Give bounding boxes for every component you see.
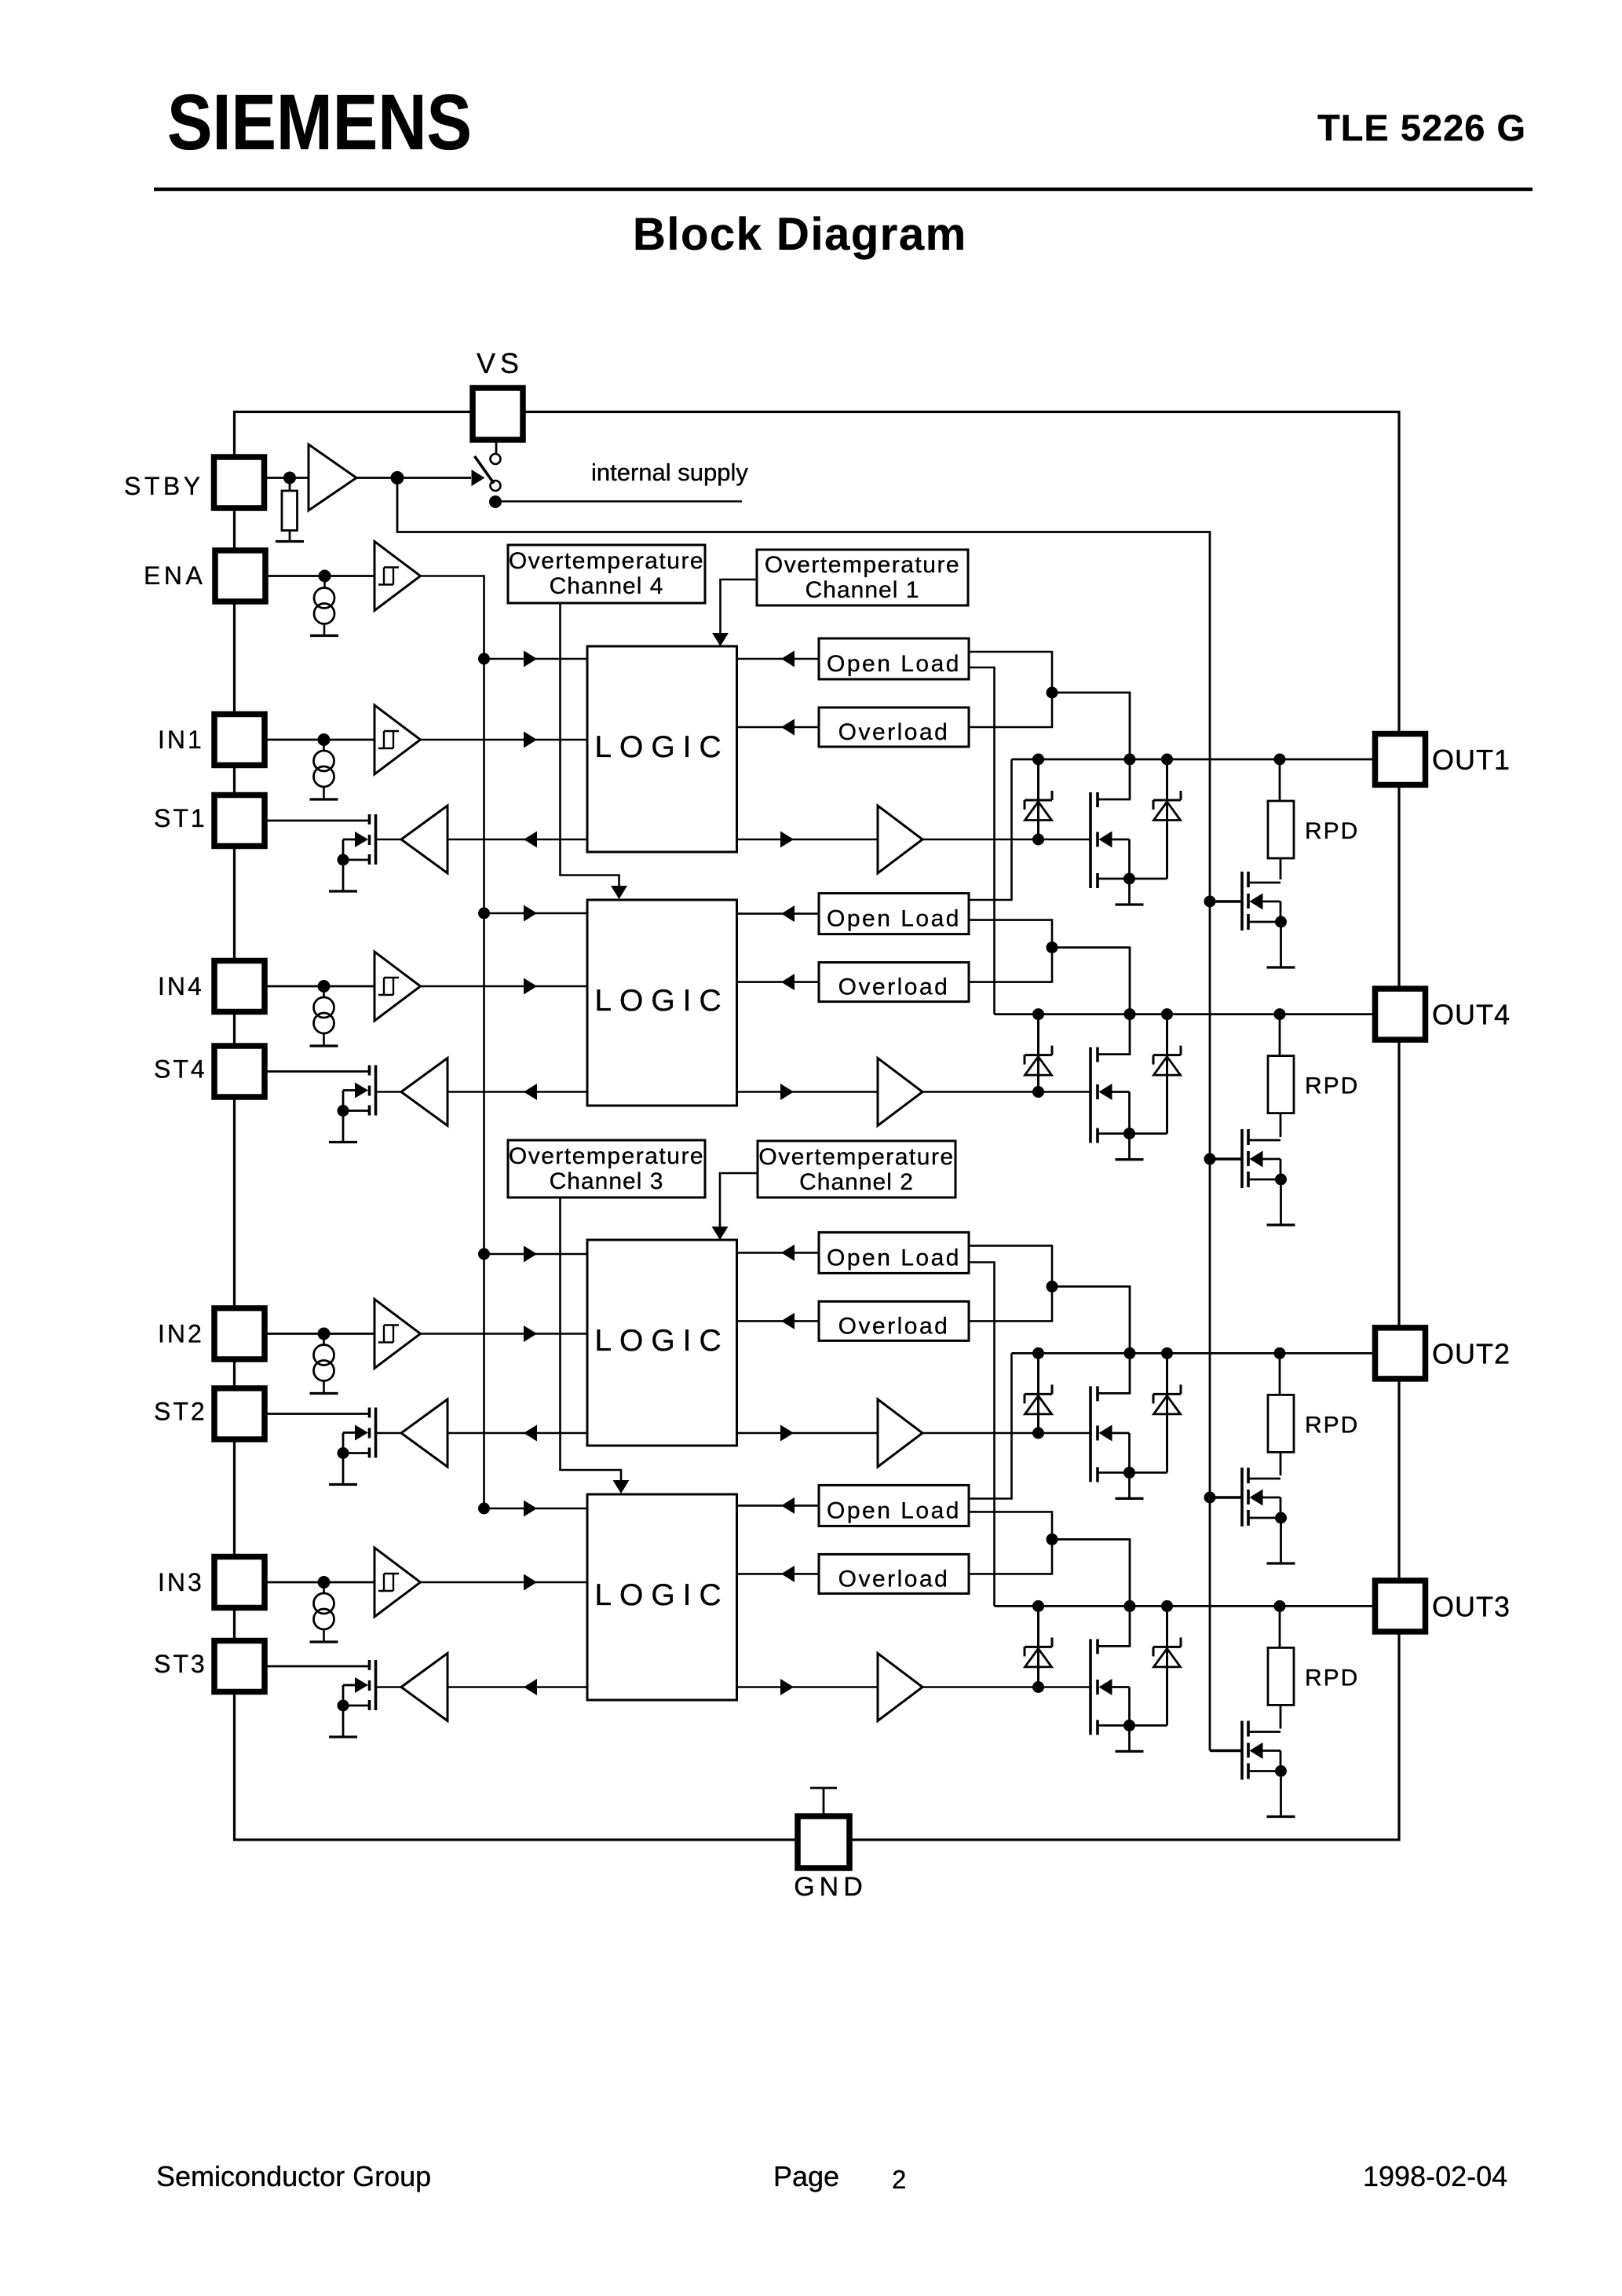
footer Page xyxy=(773,2160,839,2192)
pin IN2 xyxy=(214,1308,265,1359)
overtemperature channel 1 box xyxy=(757,550,968,605)
wire power transistor 4 to ground xyxy=(1128,1134,1131,1160)
wire drain sense to output transistor 2 xyxy=(1052,1286,1130,1393)
pin ST4 xyxy=(214,1046,265,1097)
pulldown transistor channel 4 xyxy=(1242,1129,1287,1188)
schmitt trigger IN4 xyxy=(374,952,421,1021)
logic block channel 1 xyxy=(587,646,737,852)
node OUT1 net xyxy=(1012,754,1376,766)
wire RPD to pulldown transistor 4 xyxy=(1280,1113,1282,1137)
wire overtemp ch2 to logic2 xyxy=(712,1173,758,1240)
wire IN4 to current source xyxy=(323,986,325,997)
ground power transistor 4 xyxy=(1116,1158,1144,1161)
ground power transistor 3 xyxy=(1116,1750,1144,1753)
label RPD channel 3 xyxy=(1305,1665,1359,1691)
zener diode gate clamp channel 3 xyxy=(1025,1606,1052,1693)
svg-text:Open Load: Open Load xyxy=(827,906,961,932)
label RPD channel 4 xyxy=(1305,1073,1359,1099)
svg-text:IN1: IN1 xyxy=(158,726,204,754)
wire OUT4 to RPD xyxy=(1279,1015,1281,1056)
pulldown transistor channel 1 xyxy=(1242,872,1287,930)
wire overtemp ch1 to logic1 xyxy=(712,579,757,646)
current source IN2 xyxy=(314,1345,334,1381)
wire supply rail to pulldown gate 4 xyxy=(1210,1157,1242,1161)
wire status driver to ST1 transistor gate xyxy=(376,839,402,841)
wire OUT3 to RPD xyxy=(1279,1606,1281,1647)
wire IN1 to current source xyxy=(323,740,325,751)
pin IN1 xyxy=(214,715,265,766)
switch terminal lower xyxy=(491,481,501,491)
node pulldown gate channel 2 xyxy=(1204,1492,1216,1504)
wire logic 4 to output driver xyxy=(737,1084,879,1100)
svg-text:Overload: Overload xyxy=(838,1313,950,1339)
node internal supply xyxy=(489,495,502,508)
label internal supply xyxy=(591,459,748,486)
wire STBY pin to buffer xyxy=(265,477,309,479)
resistor STBY pulldown xyxy=(282,491,298,531)
wire logic 2 to output driver xyxy=(737,1425,879,1442)
wire overtemp ch3 to logic3 xyxy=(561,1197,630,1493)
label GND xyxy=(794,1872,868,1902)
wire open load 1 drain sense stub xyxy=(969,652,1052,727)
wire logic 3 to output driver xyxy=(737,1679,879,1695)
wire open load 4 drain sense stub xyxy=(969,920,1052,982)
chip boundary rectangle xyxy=(235,412,1400,1841)
wire enable into logic 3 xyxy=(484,1501,588,1517)
wire open load 3 into logic xyxy=(737,1497,820,1514)
wire to pulldown resistor xyxy=(289,478,291,492)
node OUT4 net xyxy=(995,1008,1376,1020)
wire output driver to power gate 3 xyxy=(922,1686,1090,1688)
current source IN1 xyxy=(314,751,334,787)
wire logic 2 to status driver xyxy=(448,1425,587,1442)
svg-text:Semiconductor Group: Semiconductor Group xyxy=(156,2160,431,2192)
label IN3 xyxy=(158,1568,204,1596)
ground pulldown transistor 2 xyxy=(1267,1562,1295,1564)
wire open load 2 to OUT3 sense xyxy=(969,1263,995,1607)
label OUT1 xyxy=(1432,744,1511,776)
wire pulldown transistor 3 to ground xyxy=(1280,1771,1282,1817)
ground pulldown transistor 4 xyxy=(1267,1223,1295,1226)
svg-text:ST2: ST2 xyxy=(154,1398,207,1426)
wire IN1 pin to schmitt xyxy=(265,739,374,741)
transistor ST3 open drain xyxy=(338,1660,376,1712)
pin ST3 xyxy=(214,1641,265,1692)
zener diode gate clamp channel 4 xyxy=(1025,1015,1052,1098)
wire current source 1 to ground xyxy=(323,787,325,799)
svg-text:SIEMENS: SIEMENS xyxy=(167,78,472,166)
wire ST2 pin to transistor xyxy=(265,1413,370,1415)
label ST4 xyxy=(154,1055,207,1084)
current source IN3 xyxy=(314,1593,334,1629)
svg-text:Overtemperature: Overtemperature xyxy=(509,1143,704,1169)
open load box channel 3 xyxy=(819,1485,969,1526)
body diode channel 2 xyxy=(1153,1353,1181,1472)
svg-text:Overload: Overload xyxy=(838,1566,950,1592)
label OUT3 xyxy=(1432,1590,1511,1622)
node pulldown gate channel 4 xyxy=(1204,1153,1216,1165)
svg-text:internal supply: internal supply xyxy=(591,459,748,486)
zener diode gate clamp channel 2 xyxy=(1025,1353,1052,1439)
overload box channel 3 xyxy=(819,1554,969,1593)
overtemperature channel 4 box xyxy=(508,545,705,603)
svg-text:ST4: ST4 xyxy=(154,1055,207,1084)
pin OUT2 xyxy=(1375,1328,1426,1379)
pin VS xyxy=(473,388,523,440)
resistor RPD channel 1 xyxy=(1268,801,1294,858)
wire overload 2 into logic xyxy=(737,1313,820,1329)
transistor ST1 open drain xyxy=(338,814,376,866)
transistor ST4 open drain xyxy=(338,1066,376,1117)
svg-text:RPD: RPD xyxy=(1305,1073,1359,1099)
wire pulldown transistor 1 to ground xyxy=(1280,922,1282,967)
node drain sense channel 3 xyxy=(1047,1534,1058,1545)
wire overload 4 into logic xyxy=(737,974,820,990)
ground STBY resistor xyxy=(276,540,304,543)
wire drain sense to output transistor 3 xyxy=(1052,1539,1130,1646)
zener diode gate clamp channel 1 xyxy=(1025,759,1052,846)
pin IN4 xyxy=(214,961,265,1012)
ground pulldown transistor 3 xyxy=(1267,1815,1295,1818)
svg-text:Overtemperature: Overtemperature xyxy=(509,548,704,574)
node IN2 junction xyxy=(318,1328,331,1340)
wire ST1 pin to transistor xyxy=(265,820,370,822)
wire current source 3 to ground xyxy=(323,1629,325,1642)
SIEMENS logo xyxy=(167,78,472,166)
open load box channel 4 xyxy=(819,894,969,934)
wire IN3 to current source xyxy=(323,1582,325,1593)
wire power transistor 1 to ground xyxy=(1128,879,1131,905)
wire open load 2 into logic xyxy=(737,1245,820,1261)
pin OUT3 xyxy=(1375,1581,1426,1632)
resistor RPD channel 2 xyxy=(1268,1395,1294,1452)
svg-text:GND: GND xyxy=(794,1872,868,1902)
wire enable into logic 2 xyxy=(484,1246,588,1263)
wire logic 1 to output driver xyxy=(737,832,879,848)
node OUT3 net xyxy=(995,1600,1376,1612)
pulldown transistor channel 3 xyxy=(1242,1721,1287,1780)
label STBY xyxy=(124,472,204,500)
svg-text:ENA: ENA xyxy=(144,561,206,590)
wire RPD to pulldown transistor 2 xyxy=(1280,1452,1282,1475)
pin ENA xyxy=(215,550,265,601)
svg-text:2: 2 xyxy=(892,2165,906,2194)
wire status driver to ST3 transistor gate xyxy=(376,1686,402,1688)
wire RPD to pulldown transistor 1 xyxy=(1280,858,1282,879)
svg-text:Open Load: Open Load xyxy=(827,651,961,677)
ground symbol above GND pin xyxy=(810,1788,837,1816)
power transistor channel 1 xyxy=(1090,792,1167,888)
wire drain sense to output transistor 1 xyxy=(1052,693,1130,799)
wire internal supply xyxy=(495,500,742,502)
output driver channel 4 xyxy=(878,1058,922,1126)
svg-text:TLE 5226 G: TLE 5226 G xyxy=(1317,107,1526,148)
label ENA xyxy=(144,561,206,590)
wire status driver to ST4 transistor gate xyxy=(376,1091,402,1093)
svg-text:IN4: IN4 xyxy=(158,972,204,1000)
wire ST3 pin to transistor xyxy=(265,1665,370,1668)
wire enable into logic 4 xyxy=(484,905,588,922)
svg-text:Overload: Overload xyxy=(838,974,950,1000)
wire power transistor 3 to ground xyxy=(1128,1725,1131,1751)
pin ST2 xyxy=(214,1388,265,1439)
body diode channel 4 xyxy=(1153,1015,1181,1134)
label ST3 xyxy=(154,1650,207,1678)
schmitt trigger IN1 xyxy=(374,705,421,774)
logic block channel 4 xyxy=(587,900,737,1106)
svg-text:IN3: IN3 xyxy=(158,1568,204,1596)
svg-text:RPD: RPD xyxy=(1305,1412,1359,1438)
svg-text:OUT1: OUT1 xyxy=(1432,744,1511,776)
svg-text:STBY: STBY xyxy=(124,472,204,500)
wire IN2 pin to schmitt xyxy=(265,1333,374,1335)
wire ST2 transistor to ground xyxy=(342,1453,345,1485)
node enable channel 4 xyxy=(478,908,490,919)
wire overload 3 into logic xyxy=(737,1566,820,1582)
node drain sense channel 4 xyxy=(1047,941,1058,953)
schmitt buffer ENA xyxy=(374,542,421,611)
wire drain sense to output transistor 4 xyxy=(1052,948,1130,1055)
label VS xyxy=(477,347,524,379)
wire pulldown transistor 4 to ground xyxy=(1280,1179,1282,1225)
buffer STBY xyxy=(309,444,356,510)
status driver channel 4 xyxy=(401,1058,448,1126)
output driver channel 3 xyxy=(878,1654,922,1721)
svg-text:Open Load: Open Load xyxy=(827,1245,961,1270)
wire buffer to switch xyxy=(356,470,485,486)
wire current source 2 to ground xyxy=(323,1381,325,1394)
status driver channel 1 xyxy=(401,806,448,873)
wire OUT1 to open load 4 sense xyxy=(969,759,1012,900)
svg-text:LOGIC: LOGIC xyxy=(594,1578,729,1612)
node enable channel 3 xyxy=(478,1503,490,1515)
label IN2 xyxy=(158,1320,204,1348)
wire output driver to power gate 4 xyxy=(922,1091,1090,1093)
schmitt trigger IN2 xyxy=(374,1300,421,1369)
wire OUT2 to RPD xyxy=(1279,1353,1281,1395)
ground ST4 transistor xyxy=(329,1141,357,1143)
svg-text:Overtemperature: Overtemperature xyxy=(765,552,960,578)
label IN1 xyxy=(158,726,204,754)
wire enable into logic 1 xyxy=(484,651,588,667)
node pulldown gate channel 1 xyxy=(1204,896,1216,908)
wire current source to ground xyxy=(323,624,326,636)
wire open load 3 drain sense stub xyxy=(969,1512,1052,1574)
svg-text:ST1: ST1 xyxy=(154,804,207,832)
footer date xyxy=(1363,2160,1507,2192)
logic block channel 2 xyxy=(587,1240,737,1446)
node STBY junction xyxy=(283,472,296,484)
overtemperature channel 2 box xyxy=(758,1141,955,1197)
current source IN4 xyxy=(314,997,334,1033)
wire logic 3 to status driver xyxy=(448,1679,587,1695)
footer Semiconductor Group xyxy=(156,2160,431,2192)
svg-text:LOGIC: LOGIC xyxy=(594,984,729,1018)
ground ENA current source xyxy=(310,634,338,637)
wire IN3 schmitt into logic xyxy=(421,1574,588,1591)
overload box channel 1 xyxy=(819,707,969,747)
wire ST3 transistor to ground xyxy=(342,1706,345,1737)
open load box channel 1 xyxy=(819,638,969,679)
svg-text:VS: VS xyxy=(477,347,524,379)
wire status driver to ST2 transistor gate xyxy=(376,1432,402,1435)
wire IN2 to current source xyxy=(323,1334,325,1345)
power transistor channel 4 xyxy=(1090,1047,1167,1143)
svg-text:Overtemperature: Overtemperature xyxy=(758,1144,954,1170)
wire IN4 schmitt into logic xyxy=(421,978,588,995)
title Block Diagram xyxy=(633,209,967,260)
schmitt trigger IN3 xyxy=(374,1548,421,1617)
wire overtemp ch4 to logic4 xyxy=(561,603,628,899)
body diode channel 1 xyxy=(1153,759,1181,879)
transistor ST2 open drain xyxy=(338,1408,376,1460)
wire VS stub to switch xyxy=(495,440,498,454)
ground current source IN3 xyxy=(310,1640,338,1643)
label ST1 xyxy=(154,804,207,832)
svg-text:OUT3: OUT3 xyxy=(1432,1590,1511,1622)
wire open load 1 into logic xyxy=(737,651,820,667)
wire power transistor 2 to ground xyxy=(1128,1472,1131,1498)
overtemperature channel 3 box xyxy=(508,1140,705,1197)
node ENA junction xyxy=(319,570,331,583)
svg-text:LOGIC: LOGIC xyxy=(594,1324,729,1358)
status driver channel 3 xyxy=(401,1654,448,1721)
svg-text:Channel 1: Channel 1 xyxy=(806,577,920,603)
svg-text:OUT4: OUT4 xyxy=(1432,999,1511,1031)
wire ST1 transistor to ground xyxy=(342,860,345,891)
power transistor channel 3 xyxy=(1090,1639,1167,1735)
wire open load 1 to OUT4 sense xyxy=(969,667,995,1015)
wire resistor to ground xyxy=(289,531,291,542)
wire supply rail to pulldown gate 2 xyxy=(1210,1496,1242,1499)
pin OUT4 xyxy=(1375,989,1426,1040)
wire ST4 transistor to ground xyxy=(342,1111,345,1143)
status driver channel 2 xyxy=(401,1399,448,1467)
ground ST2 transistor xyxy=(329,1483,357,1486)
wire IN1 schmitt into logic xyxy=(421,732,588,748)
part number TLE 5226 G xyxy=(1317,107,1526,148)
pin ST1 xyxy=(214,795,265,846)
svg-text:RPD: RPD xyxy=(1305,818,1359,844)
overload box channel 2 xyxy=(819,1301,969,1340)
ground current source IN1 xyxy=(310,798,338,800)
label RPD channel 2 xyxy=(1305,1412,1359,1438)
label IN4 xyxy=(158,972,204,1000)
output driver channel 2 xyxy=(878,1399,922,1467)
pulldown transistor channel 2 xyxy=(1242,1468,1287,1526)
node drain sense channel 1 xyxy=(1047,687,1058,699)
svg-text:Channel 4: Channel 4 xyxy=(550,573,664,599)
output driver channel 1 xyxy=(878,806,922,873)
wire ENA to current source xyxy=(323,576,326,588)
wire OUT1 to RPD xyxy=(1279,759,1281,801)
wire open load 2 drain sense stub xyxy=(969,1245,1052,1321)
wire OUT2 to open load 3 sense xyxy=(969,1353,1012,1498)
wire output driver to power gate 1 xyxy=(922,839,1090,841)
node OUT2 net xyxy=(1012,1347,1376,1359)
wire pulldown transistor 2 to ground xyxy=(1280,1518,1282,1563)
wire current source 4 to ground xyxy=(323,1033,325,1046)
wire open load 4 into logic xyxy=(737,905,820,922)
pin IN3 xyxy=(214,1557,265,1608)
node IN1 junction xyxy=(318,733,331,746)
pin OUT1 xyxy=(1375,734,1426,785)
resistor RPD channel 3 xyxy=(1268,1647,1294,1705)
node IN4 junction xyxy=(318,980,331,993)
ground ST3 transistor xyxy=(329,1735,357,1738)
svg-text:RPD: RPD xyxy=(1305,1665,1359,1691)
body diode channel 3 xyxy=(1153,1606,1181,1725)
pin GND xyxy=(798,1816,849,1868)
label ST2 xyxy=(154,1398,207,1426)
wire ST4 pin to transistor xyxy=(265,1070,370,1073)
svg-text:Channel 3: Channel 3 xyxy=(550,1168,664,1194)
node enable channel 2 xyxy=(478,1249,490,1260)
wire output driver to power gate 2 xyxy=(922,1432,1090,1435)
pin STBY xyxy=(214,457,265,508)
label OUT2 xyxy=(1432,1337,1511,1369)
ground power transistor 2 xyxy=(1116,1497,1144,1500)
wire supply rail to pulldown gate 1 xyxy=(1210,900,1242,903)
wire overload 1 into logic xyxy=(737,719,820,736)
wire RPD to pulldown transistor 3 xyxy=(1280,1705,1282,1728)
node drain sense channel 2 xyxy=(1047,1281,1058,1292)
svg-text:OUT2: OUT2 xyxy=(1432,1337,1511,1369)
current source ENA xyxy=(314,588,334,624)
svg-text:1998-02-04: 1998-02-04 xyxy=(1363,2160,1507,2192)
wire IN3 pin to schmitt xyxy=(265,1581,374,1584)
overload box channel 4 xyxy=(819,963,969,1002)
svg-text:ST3: ST3 xyxy=(154,1650,207,1678)
node enable channel 1 xyxy=(478,653,490,665)
svg-text:LOGIC: LOGIC xyxy=(594,730,729,764)
svg-text:Open Load: Open Load xyxy=(827,1497,961,1523)
svg-text:Overload: Overload xyxy=(838,719,950,745)
svg-text:Block Diagram: Block Diagram xyxy=(633,209,967,260)
wire IN4 pin to schmitt xyxy=(265,985,374,988)
wire IN2 schmitt into logic xyxy=(421,1325,588,1342)
ground power transistor 1 xyxy=(1116,903,1144,905)
ground current source IN4 xyxy=(310,1044,338,1047)
wire logic 4 to status driver xyxy=(448,1084,587,1100)
wire supply rail to pulldown gate 3 xyxy=(1210,1749,1242,1753)
label OUT4 xyxy=(1432,999,1511,1031)
svg-text:Channel 2: Channel 2 xyxy=(799,1169,914,1195)
ground current source IN2 xyxy=(310,1392,338,1395)
power transistor channel 2 xyxy=(1090,1386,1167,1482)
resistor RPD channel 4 xyxy=(1268,1056,1294,1113)
footer page number xyxy=(892,2165,906,2194)
internal supply rail from STBY buffer xyxy=(397,478,1210,1751)
svg-text:Page: Page xyxy=(773,2160,839,2192)
label RPD channel 1 xyxy=(1305,818,1359,844)
header rule xyxy=(154,188,1532,192)
node IN3 junction xyxy=(318,1576,331,1589)
open load box channel 2 xyxy=(819,1232,969,1273)
switch terminal upper xyxy=(491,454,501,464)
switch lever xyxy=(475,456,495,484)
logic block channel 3 xyxy=(587,1494,737,1700)
ground ST1 transistor xyxy=(329,890,357,892)
ground pulldown transistor 1 xyxy=(1267,966,1295,968)
wire ENA pin to schmitt xyxy=(265,575,374,577)
svg-text:IN2: IN2 xyxy=(158,1320,204,1348)
wire logic 1 to status driver xyxy=(448,832,587,848)
wire ENA schmitt to enable rail xyxy=(421,576,484,1509)
